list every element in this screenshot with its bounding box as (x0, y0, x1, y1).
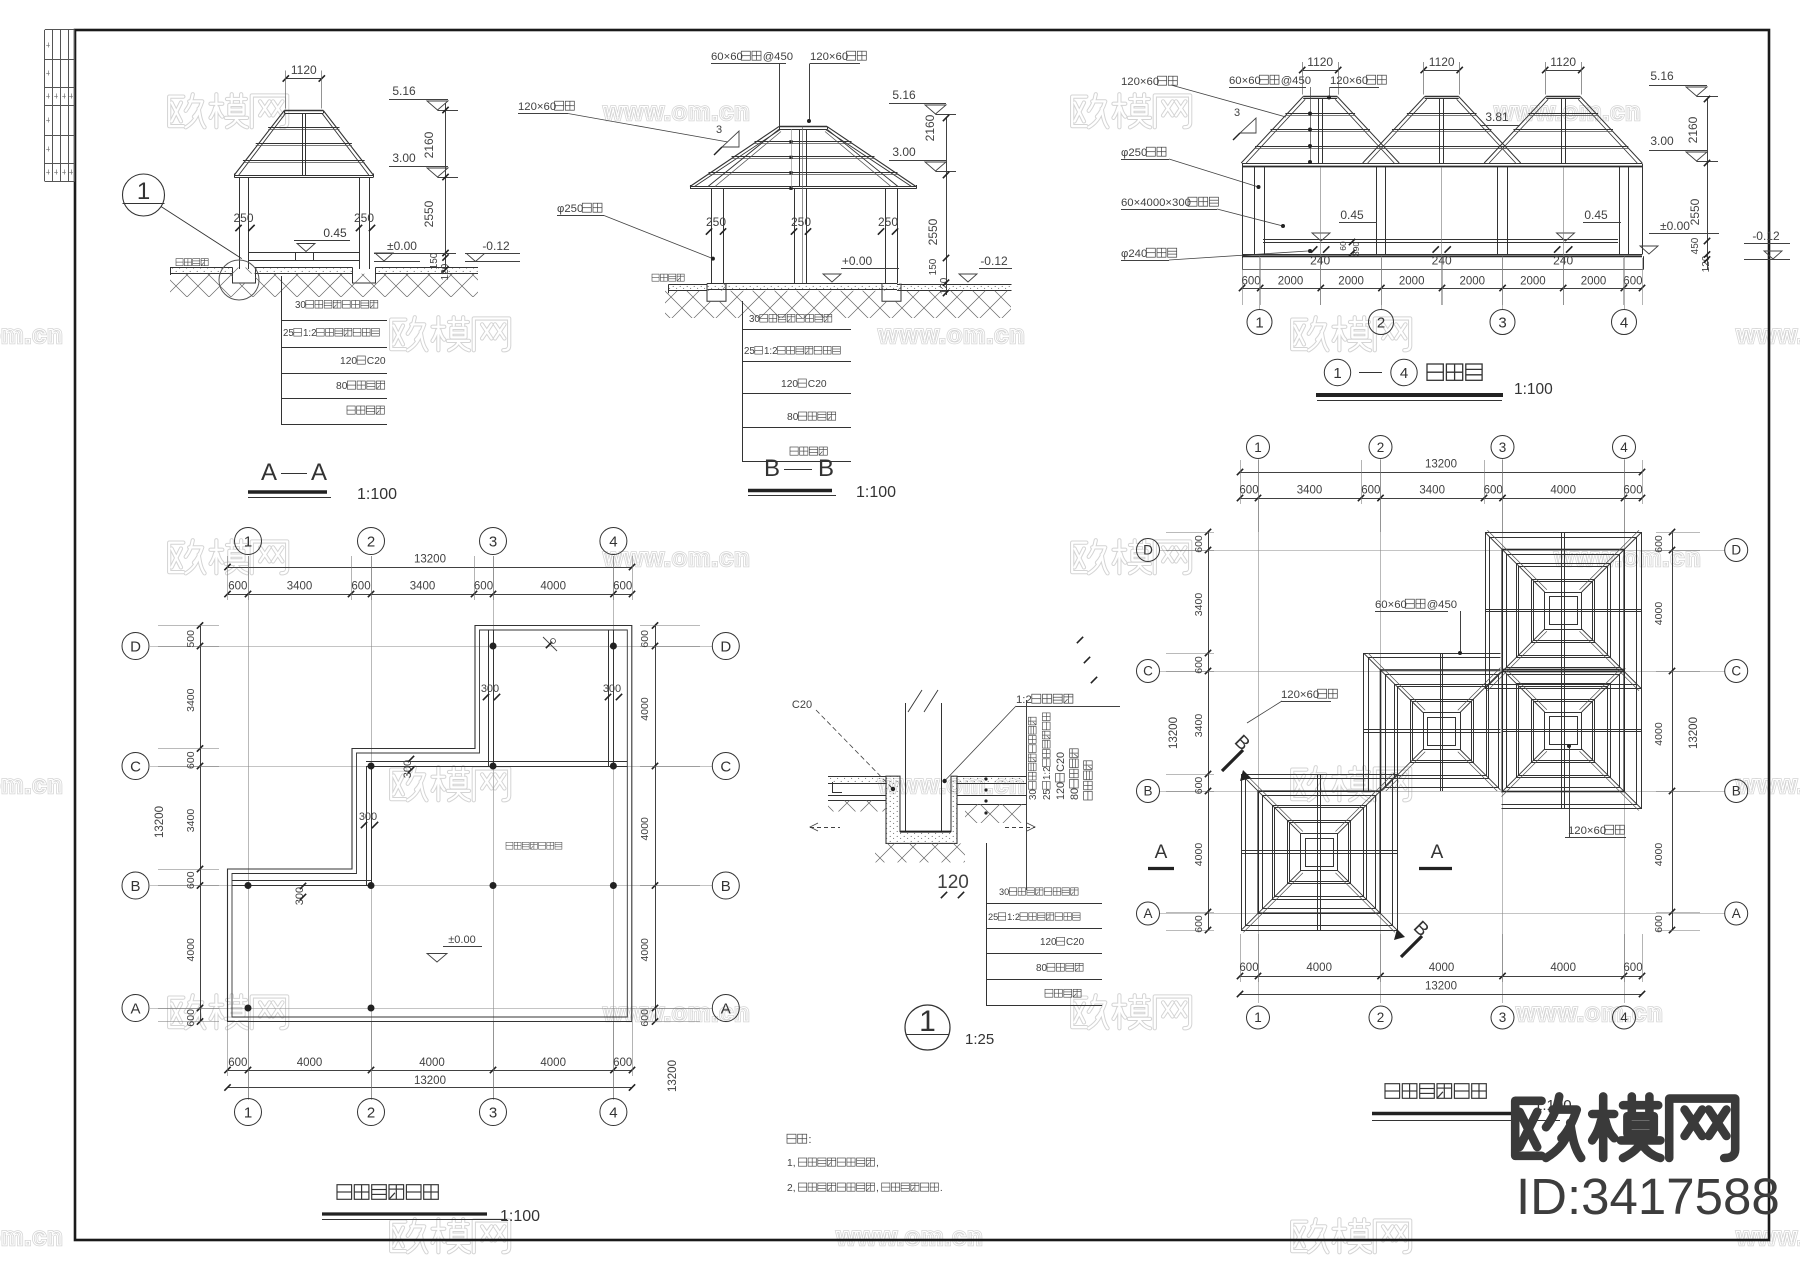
svg-text:φ240: φ240 (1121, 248, 1147, 260)
svg-text:4000: 4000 (1653, 843, 1665, 867)
svg-text:450: 450 (1690, 237, 1701, 254)
svg-text:1:100: 1:100 (500, 1208, 540, 1225)
svg-text:600: 600 (1361, 485, 1380, 497)
svg-text:www.om.cn: www.om.cn (0, 321, 63, 349)
svg-text:C: C (1731, 664, 1741, 679)
svg-text:4: 4 (609, 1105, 617, 1122)
svg-text:4000: 4000 (639, 938, 651, 962)
svg-text:5.16: 5.16 (892, 88, 916, 102)
svg-text:±0.00: ±0.00 (387, 239, 417, 253)
svg-text:±0.00: ±0.00 (1660, 219, 1690, 233)
svg-text:4000: 4000 (1193, 843, 1205, 867)
svg-text:13200: 13200 (154, 806, 166, 838)
svg-text:www.om.cn: www.om.cn (0, 1223, 63, 1251)
svg-text:@450: @450 (1427, 599, 1457, 611)
svg-text:4000: 4000 (540, 1057, 566, 1069)
svg-text:3400: 3400 (1193, 714, 1205, 738)
svg-text:4: 4 (1620, 1010, 1628, 1025)
svg-text:25: 25 (744, 346, 755, 357)
svg-text:80: 80 (787, 412, 799, 423)
svg-text:13200: 13200 (1425, 981, 1457, 993)
svg-text:2: 2 (367, 1105, 375, 1122)
svg-text:-0.12: -0.12 (482, 239, 510, 253)
svg-text:600: 600 (185, 1009, 197, 1027)
svg-text:60×60: 60×60 (1229, 75, 1261, 87)
svg-text:120: 120 (1055, 782, 1067, 800)
svg-text:600: 600 (1623, 962, 1642, 974)
svg-text:4: 4 (1620, 440, 1628, 455)
svg-text:240: 240 (1432, 254, 1452, 268)
svg-text:3400: 3400 (1193, 593, 1205, 617)
svg-text:2,: 2, (787, 1183, 796, 1194)
svg-text:www.om.cn: www.om.cn (603, 98, 751, 126)
svg-text:4000: 4000 (1429, 962, 1455, 974)
svg-text:3: 3 (1234, 107, 1240, 119)
svg-text:4: 4 (1620, 315, 1628, 332)
svg-text:3.00: 3.00 (892, 145, 916, 159)
svg-text:120×60: 120×60 (1330, 75, 1368, 87)
svg-text:3400: 3400 (185, 809, 197, 833)
svg-text:2160: 2160 (422, 131, 436, 158)
svg-text:80: 80 (336, 381, 348, 392)
svg-text:4000: 4000 (1306, 962, 1332, 974)
svg-text:120×60: 120×60 (518, 101, 556, 113)
svg-text:150: 150 (429, 252, 440, 269)
svg-text:A: A (1143, 906, 1152, 921)
svg-text:0.45: 0.45 (1584, 208, 1608, 222)
svg-text:60: 60 (1338, 241, 1348, 251)
svg-text:1:2: 1:2 (1042, 766, 1053, 780)
svg-text:2: 2 (367, 534, 375, 551)
svg-text:C: C (720, 759, 731, 776)
svg-text:13200: 13200 (414, 554, 446, 566)
svg-text:4000: 4000 (639, 697, 651, 721)
svg-text:4000: 4000 (540, 581, 566, 593)
svg-text:600: 600 (1193, 777, 1205, 795)
svg-text:C20: C20 (1066, 937, 1085, 948)
svg-text:600: 600 (351, 581, 370, 593)
svg-text:1: 1 (244, 534, 252, 551)
svg-text:1:2: 1:2 (764, 346, 778, 357)
svg-text:A: A (130, 1001, 140, 1018)
svg-text:120×60: 120×60 (1281, 689, 1319, 701)
svg-text:B: B (130, 878, 140, 895)
svg-text:1:25: 1:25 (965, 1031, 994, 1048)
svg-text:13200: 13200 (1425, 459, 1457, 471)
svg-text:120: 120 (440, 263, 451, 280)
svg-text:4: 4 (1400, 365, 1408, 382)
svg-text:120: 120 (340, 356, 357, 367)
svg-text:φ250: φ250 (1121, 147, 1147, 159)
svg-text:3400: 3400 (1419, 485, 1445, 497)
svg-text:600: 600 (474, 581, 493, 593)
svg-text:1:100: 1:100 (1514, 381, 1553, 398)
svg-text:13200: 13200 (1168, 717, 1180, 749)
svg-text:120: 120 (1701, 255, 1712, 272)
svg-text:60×4000×300: 60×4000×300 (1121, 197, 1191, 209)
svg-text:300: 300 (481, 683, 499, 695)
svg-text:1:2: 1:2 (303, 328, 317, 339)
svg-text:600: 600 (1242, 276, 1261, 288)
svg-text:C20: C20 (1055, 752, 1067, 772)
svg-text:1120: 1120 (1307, 55, 1333, 69)
svg-text:120×60: 120×60 (810, 51, 848, 63)
svg-text:5.16: 5.16 (1650, 69, 1674, 83)
svg-text:600: 600 (639, 1009, 651, 1027)
svg-text:www.om.cn: www.om.cn (878, 321, 1026, 349)
svg-text:1: 1 (244, 1105, 252, 1122)
svg-text:φ250: φ250 (557, 203, 583, 215)
svg-text:3.00: 3.00 (1650, 134, 1674, 148)
svg-text:600: 600 (1239, 485, 1258, 497)
svg-text:-0.12: -0.12 (980, 254, 1008, 268)
svg-text:600: 600 (228, 581, 247, 593)
svg-text:4000: 4000 (1550, 485, 1576, 497)
svg-text:www.om.cn: www.om.cn (0, 771, 63, 799)
svg-text:1120: 1120 (1429, 55, 1455, 69)
svg-text:30: 30 (1028, 789, 1039, 800)
svg-text:60×60: 60×60 (711, 51, 743, 63)
svg-text:4000: 4000 (639, 817, 651, 841)
svg-text:30: 30 (749, 314, 760, 325)
svg-text:30: 30 (295, 300, 306, 311)
svg-text:+0.00: +0.00 (842, 254, 873, 268)
svg-text:A: A (261, 459, 277, 486)
svg-text:1,: 1, (787, 1158, 796, 1169)
svg-text:3.00: 3.00 (392, 151, 416, 165)
svg-text:1:2: 1:2 (1016, 694, 1032, 706)
svg-text:600: 600 (1239, 962, 1258, 974)
svg-text:600: 600 (613, 581, 632, 593)
svg-text:C20: C20 (367, 356, 386, 367)
svg-text:1:2: 1:2 (1007, 912, 1020, 922)
svg-text:5.16: 5.16 (392, 84, 416, 98)
svg-text:3400: 3400 (185, 688, 197, 712)
svg-text:2000: 2000 (1581, 276, 1607, 288)
svg-text:250: 250 (354, 211, 374, 225)
svg-text:±0.00: ±0.00 (448, 934, 475, 946)
svg-text:0.45: 0.45 (323, 226, 347, 240)
svg-text:C: C (130, 759, 141, 776)
svg-text:600: 600 (1623, 276, 1642, 288)
svg-text:250: 250 (706, 215, 726, 229)
svg-text:600: 600 (1193, 656, 1205, 674)
svg-text:250: 250 (791, 215, 811, 229)
svg-text:2550: 2550 (422, 200, 436, 227)
svg-text:1:100: 1:100 (357, 486, 397, 503)
svg-text:120: 120 (937, 872, 969, 893)
svg-text:B: B (1143, 784, 1152, 799)
svg-text:1: 1 (1254, 1010, 1262, 1025)
svg-text:3: 3 (1499, 1010, 1507, 1025)
svg-text:4: 4 (609, 534, 617, 551)
svg-text:120: 120 (781, 379, 798, 390)
svg-text:2000: 2000 (1460, 276, 1486, 288)
svg-text:2000: 2000 (1338, 276, 1364, 288)
svg-text:120: 120 (1040, 937, 1057, 948)
svg-text:600: 600 (613, 1057, 632, 1069)
svg-text:600: 600 (1623, 485, 1642, 497)
svg-text:3: 3 (1499, 440, 1507, 455)
svg-text:4000: 4000 (1653, 722, 1665, 746)
svg-text:2160: 2160 (923, 114, 937, 141)
svg-text:C20: C20 (792, 699, 812, 711)
svg-text:3400: 3400 (287, 581, 313, 593)
svg-text:1:100: 1:100 (856, 484, 896, 501)
svg-text:3400: 3400 (410, 581, 436, 593)
svg-text:25: 25 (988, 912, 998, 922)
svg-text:3: 3 (489, 1105, 497, 1122)
svg-text:1: 1 (1254, 440, 1262, 455)
svg-text:600: 600 (639, 630, 651, 648)
svg-text:@450: @450 (763, 51, 793, 63)
svg-text:13200: 13200 (1688, 717, 1700, 749)
svg-text:,: , (876, 1183, 879, 1194)
svg-text:2550: 2550 (1688, 198, 1702, 225)
svg-text:600: 600 (1484, 485, 1503, 497)
svg-text::: : (808, 1134, 811, 1146)
svg-text:30: 30 (999, 887, 1009, 897)
svg-text:2: 2 (1377, 1010, 1385, 1025)
svg-text:A: A (721, 1001, 731, 1018)
svg-text:80: 80 (1036, 963, 1048, 974)
svg-text:2: 2 (1377, 315, 1385, 332)
svg-text:2550: 2550 (926, 218, 940, 245)
svg-text:@450: @450 (1281, 75, 1311, 87)
svg-text:600: 600 (1653, 915, 1665, 933)
svg-text:600: 600 (185, 751, 197, 769)
svg-text:600: 600 (185, 871, 197, 889)
svg-text:600: 600 (228, 1057, 247, 1069)
svg-text:D: D (1143, 543, 1153, 558)
svg-text:4000: 4000 (1550, 962, 1576, 974)
svg-text:3.81: 3.81 (1485, 110, 1509, 124)
svg-text:600: 600 (1653, 535, 1665, 553)
svg-text:2: 2 (1377, 440, 1385, 455)
svg-text:2000: 2000 (1399, 276, 1425, 288)
svg-text:www.om.cn: www.om.cn (1516, 999, 1664, 1027)
svg-text:250: 250 (233, 211, 253, 225)
svg-text:1: 1 (1333, 365, 1341, 382)
svg-text:A: A (1732, 906, 1741, 921)
svg-text:2000: 2000 (1278, 276, 1304, 288)
svg-text:3: 3 (716, 124, 722, 136)
svg-text:120×60: 120×60 (1568, 825, 1606, 837)
svg-text:4000: 4000 (1653, 602, 1665, 626)
svg-text:,: , (876, 1158, 879, 1169)
svg-text:D: D (720, 639, 731, 656)
svg-text:B: B (721, 878, 731, 895)
svg-text:B: B (1732, 784, 1741, 799)
svg-text:4000: 4000 (419, 1057, 445, 1069)
svg-text:80: 80 (1069, 788, 1081, 800)
svg-text:3: 3 (1498, 315, 1506, 332)
svg-text:1: 1 (137, 178, 150, 205)
svg-text:ID:3417588: ID:3417588 (1516, 1168, 1780, 1225)
svg-text:300: 300 (603, 683, 621, 695)
svg-text:600: 600 (1193, 535, 1205, 553)
svg-text:B: B (764, 455, 780, 482)
svg-text:4000: 4000 (297, 1057, 323, 1069)
svg-text:25: 25 (1042, 789, 1053, 800)
svg-text:500: 500 (185, 630, 197, 648)
svg-text:390: 390 (1351, 242, 1361, 256)
svg-text:A: A (1155, 842, 1168, 863)
svg-text:.: . (940, 1183, 943, 1194)
svg-text:A: A (311, 459, 327, 486)
svg-text:2160: 2160 (1686, 116, 1700, 143)
svg-text:-0.12: -0.12 (1752, 229, 1780, 243)
svg-text:25: 25 (283, 328, 294, 339)
svg-text:4000: 4000 (185, 938, 197, 962)
svg-text:D: D (130, 639, 141, 656)
svg-text:300: 300 (359, 811, 377, 823)
svg-text:3400: 3400 (1297, 485, 1323, 497)
svg-text:C20: C20 (808, 379, 827, 390)
svg-text:60×60: 60×60 (1375, 599, 1407, 611)
svg-text:1120: 1120 (291, 63, 317, 77)
svg-text:www.om.cn: www.om.cn (1554, 544, 1702, 572)
svg-text:www.om.cn: www.om.cn (1494, 98, 1642, 126)
svg-text:1120: 1120 (1550, 55, 1576, 69)
svg-text:www.om.cn: www.om.cn (836, 1223, 984, 1251)
svg-text:150: 150 (928, 258, 939, 275)
svg-text:B: B (818, 455, 834, 482)
svg-text:120×60: 120×60 (1121, 76, 1159, 88)
svg-text:D: D (1731, 543, 1741, 558)
svg-text:600: 600 (1193, 915, 1205, 933)
svg-text:2000: 2000 (1520, 276, 1546, 288)
svg-text:13200: 13200 (414, 1075, 446, 1087)
svg-text:250: 250 (878, 215, 898, 229)
svg-text:0.45: 0.45 (1340, 208, 1364, 222)
svg-text:3: 3 (489, 534, 497, 551)
svg-text:A: A (1431, 842, 1444, 863)
svg-text:1: 1 (1255, 315, 1263, 332)
svg-text:C: C (1143, 664, 1153, 679)
svg-text:1: 1 (919, 1005, 936, 1038)
svg-text:13200: 13200 (667, 1060, 679, 1092)
